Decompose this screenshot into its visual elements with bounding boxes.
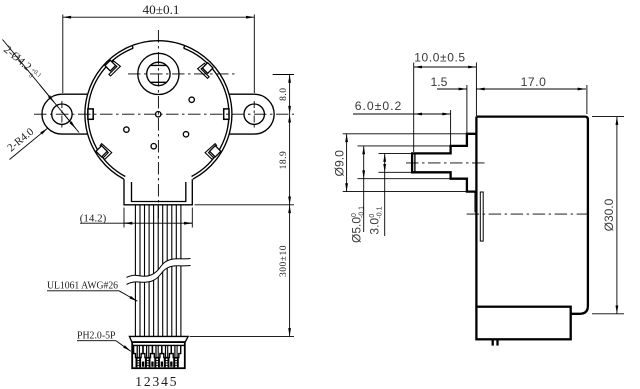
dimension Ø9.0 [333,134,467,192]
dimension 10.0±0.5 [414,51,477,153]
svg-text:0: 0 [351,213,358,217]
connector flange [129,336,188,342]
horizontal centerline [34,113,294,115]
svg-text:PH2.0-5P: PH2.0-5P [77,331,116,342]
side view shaft profile [412,134,476,192]
dimension 17.0 [476,75,587,114]
terminal box [476,307,570,340]
wire exit housing outline [124,179,192,205]
left ear hole [52,104,72,124]
svg-text:6.0±0.2: 6.0±0.2 [355,99,403,113]
svg-text:300±10: 300±10 [279,245,289,277]
dimension 6.0±0.2 [353,99,451,145]
dimension 1.5 [431,75,467,133]
right ear hole centerline [253,101,255,128]
dimension 3.0 0/-0.1 [368,153,413,236]
label 2-Ø4.2 +0.1/0 [0,40,79,133]
center pilot hole [156,112,161,117]
shaft tip inner line [414,153,416,172]
svg-text:8.0: 8.0 [279,88,289,101]
svg-text:UL1061 AWG#26: UL1061 AWG#26 [47,281,118,292]
motor body inner rim arc right [184,48,229,176]
svg-text:1: 1 [135,374,142,389]
svg-text:10.0±0.5: 10.0±0.5 [414,51,465,65]
terminal pins [493,339,498,345]
right ear hole [244,104,264,124]
housing tab upper-left [105,60,120,76]
svg-text:18.9: 18.9 [279,151,289,170]
svg-text:0: 0 [369,214,376,218]
svg-text:2: 2 [144,374,151,389]
rivet hole 1 [189,97,194,102]
housing tab lower-right [205,144,221,160]
right key tab [224,109,229,119]
left mounting ear [42,94,88,134]
dimension 40±0.1 [63,2,255,93]
right mounting ear [229,94,274,134]
motor body outer circle [85,41,232,179]
wire break mark [127,259,191,285]
label 2-R4.0 [5,125,47,159]
left key tab [88,109,93,119]
svg-text:-0.1: -0.1 [358,206,365,218]
svg-text:Ø5.0: Ø5.0 [350,217,364,243]
connector body PH2.0-5P [132,342,185,368]
svg-text:(14.2): (14.2) [80,213,107,225]
dimension (14.2) [80,208,193,228]
dimension 18.9 [195,114,295,205]
label PH2.0-5P [77,331,131,352]
left ear hole centerline [61,101,63,128]
rim step tick left [132,46,133,49]
wire exit housing white mask [132,180,185,205]
svg-text:17.0: 17.0 [521,75,547,89]
svg-text:1.5: 1.5 [431,75,448,89]
svg-text:0: 0 [27,72,34,79]
side shaft centerline [406,162,488,164]
face plate strip [480,192,483,241]
dimension Ø5.0 0/-0.1 [350,146,451,243]
dimension 8.0 [273,75,294,115]
shaft boss circle [138,53,179,94]
svg-text:-0.1: -0.1 [376,206,383,218]
side view body [476,117,588,314]
housing tab upper-right [198,63,213,79]
motor body inner rim arc left [88,48,133,176]
pin numbers 1 2 3 4 5 [135,374,176,389]
motor shaft with flats [147,62,170,85]
svg-text:5: 5 [170,374,177,389]
label UL1061 AWG#26 [47,281,137,302]
housing tab lower-left [96,144,112,160]
vertical centerline [157,30,159,220]
svg-text:3: 3 [153,374,160,389]
shaft horizontal centerline [128,73,236,75]
dimension 300±10 [190,205,295,337]
face plate edge [474,191,476,213]
svg-text:3.0: 3.0 [368,218,382,235]
rivet hole 3 [183,132,188,137]
rivet hole 4 [151,144,156,149]
svg-text:Ø9.0: Ø9.0 [333,150,347,177]
rim step tick right [184,46,185,49]
svg-text:40±0.1: 40±0.1 [143,2,180,17]
side body centerline [467,213,590,215]
dimension Ø30.0 [592,117,624,314]
rivet hole 2 [124,127,129,132]
svg-text:Ø30.0: Ø30.0 [602,198,616,231]
svg-text:2-Ø4.2: 2-Ø4.2 [1,44,34,74]
svg-text:4: 4 [161,374,168,389]
wire bundle [135,205,181,337]
